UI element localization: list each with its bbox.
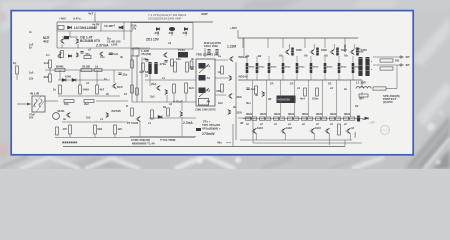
svg-text:C(W) CHN 22070: C(W) CHN 22070	[195, 108, 216, 112]
wire column lower x318	[322, 80, 324, 117]
wire top rail 1	[57, 21, 213, 23]
transistor Q18 lower output	[310, 128, 315, 134]
wire R72 lead	[16, 74, 18, 80]
protection box outline	[131, 23, 193, 49]
diode D1	[68, 26, 72, 29]
transistor Q17 lower output	[281, 128, 286, 134]
IC U1 cell 4	[199, 99, 209, 106]
svg-text:+56V: +56V	[59, 17, 66, 21]
transistor Q19 lower output	[325, 128, 330, 134]
wire U1 pin right 3	[215, 94, 226, 96]
dark block small	[196, 128, 201, 131]
wire bottom rail mid	[253, 142, 362, 144]
svg-text:47u: 47u	[100, 55, 105, 59]
capacitor C7 electrolytic	[154, 62, 157, 74]
svg-text:0R22: 0R22	[285, 67, 291, 69]
diode D3	[62, 78, 66, 81]
IC U1 arrow 2	[199, 88, 209, 97]
transistor Q21	[66, 112, 70, 117]
svg-text:47R: 47R	[216, 89, 222, 93]
svg-text:x4: x4	[168, 41, 172, 45]
wire vertical x142	[141, 57, 143, 102]
svg-text:27.5mW: 27.5mW	[127, 121, 138, 125]
svg-text:1k5: 1k5	[86, 116, 91, 120]
transistor Q7	[229, 56, 233, 61]
resistor R72 edge	[16, 66, 19, 74]
resistor R46a emitter lower	[330, 117, 335, 120]
wire R27 bottom	[268, 73, 270, 80]
svg-text:B1: B1	[246, 54, 250, 58]
svg-text:MB08WB0 T1.44: MB08WB0 T1.44	[132, 142, 155, 146]
wire q19 drop	[328, 134, 330, 146]
resistor R41a emitter lower	[260, 117, 265, 120]
svg-text:17k: 17k	[132, 27, 137, 31]
wire Q1 emitter drop	[61, 44, 63, 48]
svg-text:Ub: Ub	[324, 54, 328, 58]
wire v124 lower	[123, 31, 125, 40]
svg-text:0R22: 0R22	[299, 67, 305, 69]
svg-text:4x7: 4x7	[88, 12, 93, 16]
resistor R34	[255, 86, 258, 94]
transistor Q24	[180, 111, 182, 116]
wire stub 40s	[226, 142, 231, 144]
wire drop x325	[324, 38, 326, 48]
wire sp lower	[373, 64, 404, 66]
diode D5	[156, 28, 159, 31]
svg-text:Ub: Ub	[344, 54, 348, 58]
svg-text:2SC5200/2SA1943 AMP: 2SC5200/2SA1943 AMP	[148, 17, 182, 21]
resistor R24 base stopper	[356, 48, 359, 56]
wire drop x268	[267, 38, 269, 48]
transistor Q16 lower output	[252, 128, 257, 134]
capacitor C10 pair	[215, 50, 218, 52]
svg-text:4k7: 4k7	[100, 88, 105, 92]
wire column top x311	[310, 56, 312, 63]
terminal SP- circle	[400, 64, 402, 66]
transistor Q9	[228, 93, 232, 98]
resistor R44b emitter lower	[308, 117, 313, 120]
wire R25 bottom	[246, 73, 248, 80]
wire driver vertical 2	[243, 38, 245, 56]
diode D4	[72, 78, 76, 81]
svg-text:AMP: AMP	[201, 12, 208, 16]
svg-text:A4: A4	[207, 100, 211, 104]
wire R29 bottom	[296, 73, 298, 80]
svg-text:0R22: 0R22	[316, 112, 323, 116]
svg-text:1943: 1943	[315, 126, 321, 130]
svg-text:BD140: BD140	[239, 75, 249, 79]
svg-text:0R22: 0R22	[288, 112, 295, 116]
wire R4-R5	[49, 68, 51, 74]
resistor R13	[84, 100, 94, 103]
resistor R69 left of U1	[190, 61, 193, 69]
svg-text:L1 10R: L1 10R	[356, 81, 367, 85]
wire column top x269	[268, 56, 270, 63]
transistor Q2b below rail	[57, 54, 61, 58]
wire sp upper	[373, 56, 404, 58]
svg-text:0R22: 0R22	[249, 67, 255, 69]
resistor R52	[69, 125, 72, 134]
wire column lower x248	[252, 80, 254, 117]
wire vertical x132	[131, 55, 133, 102]
wire tick c	[114, 134, 116, 138]
wire column lower x332	[336, 80, 338, 117]
wire mid bottom link y118	[149, 117, 196, 119]
svg-text:47u: 47u	[85, 52, 90, 56]
capacitor C13 electrolytic big	[365, 57, 369, 76]
resistor R4	[49, 60, 52, 68]
wire drop x305	[304, 38, 306, 48]
svg-text:2SA: 2SA	[237, 111, 242, 115]
wire box left drop	[130, 49, 132, 60]
resistor R14	[133, 48, 139, 56]
svg-text:2SA: 2SA	[151, 82, 156, 86]
wire zener drop	[123, 22, 125, 31]
wire J1 out	[45, 100, 58, 102]
wire Q12 collector	[313, 44, 315, 49]
resistor R6	[55, 68, 65, 71]
svg-text:1k: 1k	[95, 64, 99, 68]
wire R28 bottom	[282, 73, 284, 80]
svg-text:Dy: Dy	[13, 61, 17, 65]
resistor R5	[49, 74, 52, 82]
diode D7	[184, 28, 187, 31]
inductor L1	[356, 87, 371, 89]
svg-text:22k: 22k	[29, 78, 34, 81]
resistor R3	[61, 51, 64, 58]
svg-text:20.8B: 20.8B	[82, 64, 90, 68]
wire feedback bend b	[238, 118, 253, 143]
connector J1 input jacks	[32, 96, 45, 112]
svg-text:0R22: 0R22	[344, 112, 351, 116]
resistor R59	[131, 85, 134, 93]
svg-text:0R22: 0R22	[302, 112, 309, 116]
capacitor C3	[109, 53, 112, 55]
wire driver vertical	[235, 62, 237, 140]
capacitor C6 electrolytic	[148, 62, 151, 74]
resistor R60	[136, 88, 139, 95]
resistor R40a emitter lower	[246, 117, 251, 120]
svg-text:2Tx +: 2Tx +	[203, 120, 211, 124]
wire Q17 emitter drop	[284, 134, 286, 141]
svg-text:Z03: Z03	[183, 31, 188, 35]
resistor R25 emitter upper	[246, 63, 249, 73]
wire column lower x304	[308, 80, 310, 117]
svg-text:MJ11: MJ11	[58, 109, 66, 113]
svg-text:4u4: 4u4	[300, 97, 305, 101]
resistor R31 emitter upper	[324, 63, 327, 73]
svg-text:1943: 1943	[286, 126, 292, 130]
wire Q14 collector	[353, 44, 355, 49]
svg-text:0R22: 0R22	[274, 112, 281, 116]
wire q20 drop	[349, 134, 351, 141]
wire U1 top feed	[204, 48, 206, 57]
watermark circle	[381, 126, 390, 135]
resistor R36	[316, 88, 319, 96]
svg-text:0.47u: 0.47u	[73, 17, 81, 21]
svg-text:1k2: 1k2	[150, 95, 155, 99]
wire q23 drop	[139, 122, 141, 137]
transistor Q13 upper output	[330, 49, 334, 54]
svg-text:SP: SP	[406, 63, 410, 67]
resistor R42a emitter lower	[274, 117, 279, 120]
wire column lower x262	[266, 80, 268, 117]
svg-text:BC546B 0T5: BC546B 0T5	[80, 39, 100, 43]
diode D9 row end	[365, 117, 368, 120]
resistor R43a emitter lower	[288, 117, 293, 120]
resistor R19	[221, 66, 224, 74]
wire L1 out	[386, 88, 397, 90]
resistor R45b emitter lower	[322, 117, 327, 120]
svg-text:4n: 4n	[218, 70, 221, 74]
svg-text:1R: 1R	[328, 82, 331, 86]
svg-text:2u2: 2u2	[251, 87, 256, 91]
svg-text:470u(B)(M) +: 470u(B)(M) +	[202, 126, 221, 130]
schematic panel	[11, 11, 413, 155]
svg-text:2SC52: 2SC52	[344, 44, 347, 52]
svg-text:2.7mA: 2.7mA	[183, 121, 193, 125]
resistor R33 emitter upper	[352, 63, 355, 73]
wire U1 pin right 1	[215, 59, 228, 61]
svg-text:0R22: 0R22	[259, 67, 265, 69]
diode D6 dark blob	[169, 27, 175, 31]
resistor R30 emitter upper	[310, 63, 313, 73]
wire bottom rail right	[240, 139, 352, 141]
wire column top x325	[324, 56, 326, 63]
wire mid join	[130, 136, 196, 138]
svg-text:1n: 1n	[104, 77, 107, 81]
svg-text:T.T34 TRIM: T.T34 TRIM	[160, 138, 176, 142]
wire Q18 emitter drop	[313, 134, 315, 141]
svg-text:470: 470	[63, 127, 68, 131]
wire rail y122	[62, 121, 128, 123]
svg-text:0R1: 0R1	[98, 127, 103, 131]
svg-text:0.1: 0.1	[46, 53, 50, 57]
resistor R26 emitter upper	[256, 63, 259, 73]
resistor R1	[58, 26, 64, 30]
resistor R9	[59, 85, 62, 94]
svg-text:B64B: B64B	[56, 64, 64, 68]
capacitor C4 electrolytic round	[53, 113, 60, 120]
wire hline y70	[45, 69, 130, 71]
svg-text:2SA5M: 2SA5M	[354, 131, 357, 138]
wire column top x297	[296, 56, 298, 63]
svg-text:B: B	[126, 104, 128, 108]
wire v114	[113, 70, 115, 83]
svg-text:■■■■■■■: ■■■■■■■	[62, 140, 77, 144]
wire R30 bottom	[310, 73, 312, 80]
wire corner to rail	[242, 38, 244, 48]
IC U1 cell 1	[199, 63, 206, 69]
svg-text:25V: 25V	[29, 117, 34, 120]
transistor Q14 upper output	[350, 49, 354, 54]
resistor R12	[64, 100, 74, 103]
wire v97	[96, 70, 98, 85]
wire top stub	[94, 13, 96, 23]
wire mid output rail	[238, 79, 362, 81]
wire R32 bottom	[338, 73, 340, 80]
svg-text:IN L/R: IN L/R	[30, 91, 40, 95]
wire input stage h80	[145, 79, 196, 81]
wire sp riser	[396, 65, 398, 89]
svg-text:2.37mA: 2.37mA	[96, 44, 109, 48]
resistor R18	[185, 83, 188, 93]
resistor R15	[131, 60, 134, 68]
IC U1 arrow 1	[199, 64, 209, 73]
capacitor C5	[118, 73, 121, 75]
capacitor C12 electrolytic big	[358, 57, 362, 76]
svg-text:10k: 10k	[64, 102, 69, 106]
svg-text:(2)4700: (2)4700	[383, 100, 393, 104]
wire c6 drop	[149, 74, 151, 86]
svg-text:0R22: 0R22	[313, 67, 319, 69]
svg-text:BC546: BC546	[112, 109, 122, 113]
svg-text:Ub: Ub	[304, 54, 308, 58]
wire d5 stub	[157, 31, 159, 36]
wire R33 bottom	[352, 73, 354, 80]
svg-text:1k5: 1k5	[118, 127, 123, 131]
transistor Q25	[99, 52, 103, 56]
resistor R58	[171, 59, 174, 66]
wire v80	[79, 70, 81, 85]
wire column top x353	[352, 56, 354, 63]
resistor R46b emitter lower	[336, 117, 341, 120]
svg-text:0R22: 0R22	[260, 112, 267, 116]
wire column lower x346	[350, 80, 352, 117]
wire r18 drop	[185, 93, 187, 102]
svg-text:1943: 1943	[257, 126, 263, 130]
wire column lower x290	[294, 80, 296, 117]
svg-text:22k: 22k	[44, 75, 49, 79]
transistor Q11 upper output	[285, 49, 289, 54]
resistor R35	[304, 88, 307, 96]
connector J1 hatch	[32, 96, 41, 108]
resistor R7	[81, 68, 92, 71]
resistor R2b between bases	[64, 36, 69, 39]
wire column top x257	[256, 56, 258, 63]
resistor R32 emitter upper	[338, 63, 341, 73]
resistor R27 emitter upper	[268, 63, 271, 73]
wire top rail 2	[57, 30, 133, 32]
optocoupler U2 small	[178, 52, 188, 58]
svg-text:140A: 140A	[83, 88, 90, 92]
wire Q16 emitter drop	[255, 134, 257, 141]
wire column top x339	[338, 56, 340, 63]
wire q6 drop	[166, 95, 168, 102]
svg-text:Ub: Ub	[279, 54, 283, 58]
svg-text:B+: B+	[29, 47, 33, 50]
svg-text:0u: 0u	[344, 87, 347, 91]
terminal SP+ circle	[400, 56, 402, 58]
wire lower resistor rail	[243, 118, 362, 120]
wire hline y80	[58, 79, 110, 81]
capacitor C14	[164, 61, 167, 63]
resistor R47a emitter lower	[344, 117, 349, 120]
resistor R43b emitter lower	[294, 117, 299, 120]
resistor R22 base stopper	[316, 48, 319, 56]
svg-text:2R: 2R	[268, 97, 271, 101]
resistor R11	[96, 85, 99, 94]
svg-text:5200: 5200	[296, 48, 302, 52]
wire right end drop	[344, 140, 346, 147]
svg-text:4u: 4u	[63, 117, 66, 121]
svg-text:1u: 1u	[218, 54, 221, 58]
wire column lower x276	[280, 80, 282, 117]
resistor R28 emitter upper	[282, 63, 285, 73]
resistor R50	[380, 67, 393, 70]
wire input arrow	[17, 103, 31, 105]
resistor R49	[380, 59, 393, 62]
svg-text:1k: 1k	[53, 88, 57, 92]
resistor R55	[56, 127, 59, 135]
diode D2b	[68, 55, 71, 58]
svg-text:+56V: +56V	[230, 26, 237, 30]
svg-text:A3: A3	[207, 89, 211, 93]
transistor Q8	[229, 75, 231, 80]
wire vertical x137	[136, 55, 138, 102]
svg-text:1000u: 1000u	[356, 50, 364, 54]
resistor R23 base stopper	[336, 48, 339, 56]
resistor R42b emitter lower	[280, 117, 285, 120]
wire drop x345	[344, 38, 346, 48]
svg-text:1k2: 1k2	[218, 101, 223, 105]
transistor Q1	[60, 38, 64, 43]
wire R31 bottom	[324, 73, 326, 80]
svg-text:A1: A1	[207, 64, 211, 68]
svg-text:22u: 22u	[176, 57, 181, 61]
resistor R17	[173, 84, 176, 93]
capacitor C9 pair	[207, 50, 210, 52]
IC U1 cell 3	[199, 88, 206, 94]
resistor R57	[167, 108, 170, 116]
svg-text:0R22: 0R22	[327, 67, 333, 69]
transistor Q10	[228, 109, 230, 114]
wire v60	[59, 70, 61, 80]
svg-text:ZD1 15V: ZD1 15V	[146, 38, 160, 42]
IC U1 cell 2	[199, 75, 206, 81]
diode D8	[158, 115, 162, 118]
svg-text:5W: 5W	[395, 59, 399, 63]
wire Q11 collector	[288, 44, 290, 49]
resistor R61	[131, 108, 134, 116]
svg-text:0u1: 0u1	[246, 101, 251, 105]
svg-text:1u0: 1u0	[29, 72, 34, 75]
wire d6 stub	[171, 31, 173, 36]
svg-text:40s: 40s	[217, 141, 222, 145]
svg-text:BC5: BC5	[117, 85, 123, 89]
wire U1 pin right 2	[215, 77, 228, 79]
svg-text:4.07uA: 4.07uA	[108, 52, 119, 56]
transistor Q4	[163, 52, 167, 57]
resistor R62	[359, 94, 368, 97]
transistor Q6	[165, 89, 167, 94]
svg-text:0R22: 0R22	[341, 67, 347, 69]
wire tick b	[94, 134, 96, 138]
wire out v362	[361, 80, 363, 88]
resistor R47b emitter lower	[350, 117, 355, 120]
wire Q13 collector	[333, 44, 335, 49]
svg-text:B2: B2	[258, 54, 262, 58]
svg-text:A2: A2	[207, 76, 211, 80]
wire R26 bottom	[256, 73, 258, 80]
resistor R40b emitter lower	[252, 117, 257, 120]
wire Q1 Q2 base join	[62, 36, 78, 38]
resistor R16	[142, 63, 145, 71]
wire Q2 emitter drop	[77, 44, 79, 48]
transistor Q2	[76, 38, 78, 43]
wire tick mid	[100, 23, 102, 31]
wire base to rail2	[69, 31, 71, 37]
